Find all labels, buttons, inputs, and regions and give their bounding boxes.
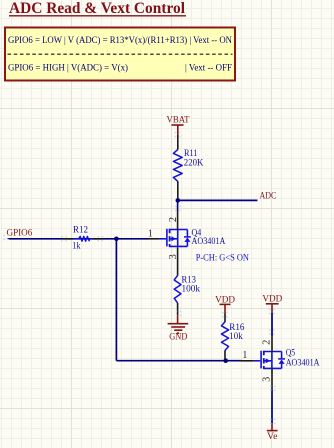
svg-text:GPIO6 = HIGH | V(ADC) = V(x): GPIO6 = HIGH | V(ADC) = V(x) <box>8 62 128 72</box>
svg-text:AO3401A: AO3401A <box>192 236 226 246</box>
svg-text:1: 1 <box>148 228 153 239</box>
svg-text:GPIO6 = LOW | V (ADC) = R13*V: GPIO6 = LOW | V (ADC) = R13*V(x)/(R11+R1… <box>8 35 232 45</box>
svg-text:ADC: ADC <box>260 192 277 202</box>
svg-text:| Vext -- OFF: | Vext -- OFF <box>185 62 232 72</box>
svg-text:1: 1 <box>242 350 247 361</box>
svg-text:Ve: Ve <box>267 432 278 442</box>
svg-text:Q5: Q5 <box>286 347 296 357</box>
svg-text:GPIO6: GPIO6 <box>7 228 33 238</box>
svg-text:ADC Read & Vext Control: ADC Read & Vext Control <box>9 0 186 17</box>
svg-text:AO3401A: AO3401A <box>286 357 320 367</box>
svg-text:220K: 220K <box>184 158 204 168</box>
svg-text:GND: GND <box>169 333 187 343</box>
svg-text:R12: R12 <box>73 224 88 234</box>
svg-text:VBAT: VBAT <box>167 115 190 125</box>
svg-text:3: 3 <box>262 377 273 382</box>
svg-text:1k: 1k <box>72 240 81 250</box>
svg-text:10k: 10k <box>229 331 243 341</box>
svg-text:2: 2 <box>262 340 273 345</box>
svg-text:2: 2 <box>168 217 179 222</box>
svg-text:P-CH: G<S ON: P-CH: G<S ON <box>196 252 250 262</box>
svg-text:100k: 100k <box>182 283 201 293</box>
svg-text:3: 3 <box>168 254 179 259</box>
